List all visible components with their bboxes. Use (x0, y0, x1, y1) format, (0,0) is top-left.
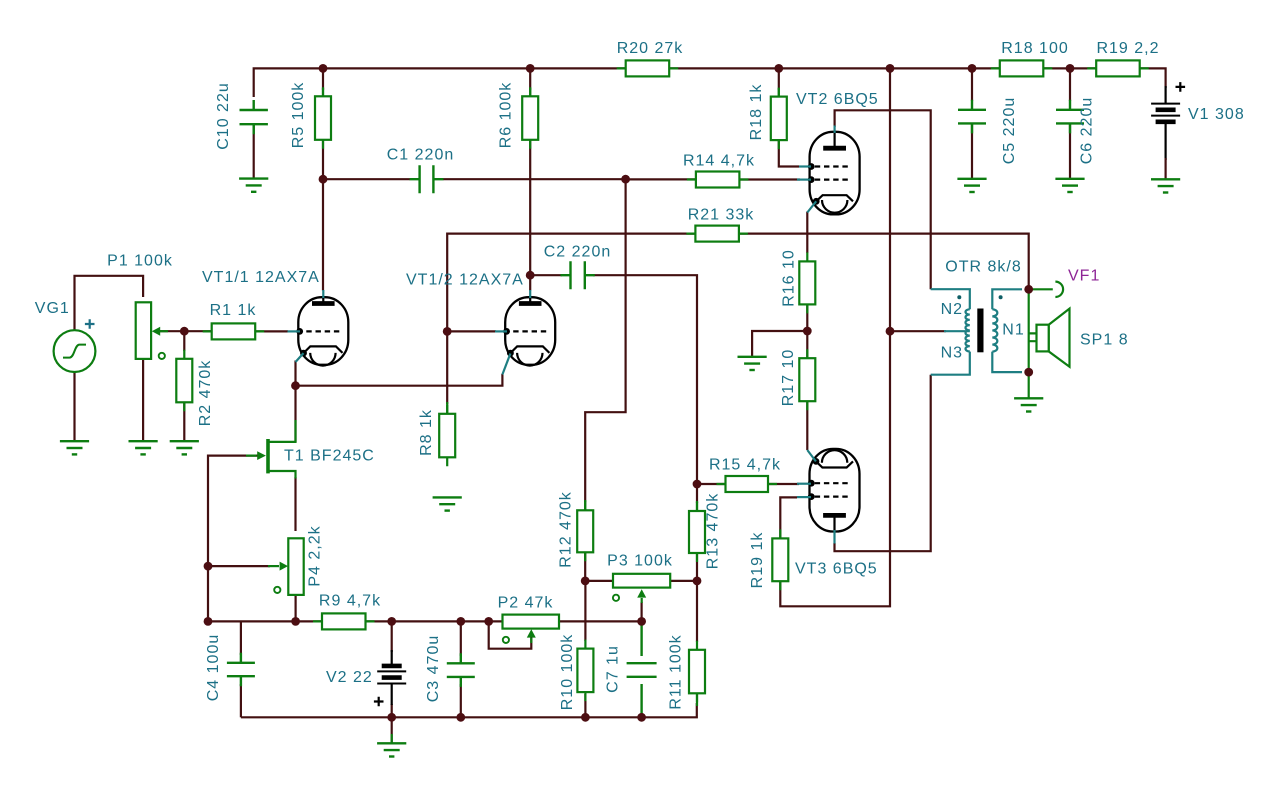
tube VT1/1 (288, 290, 349, 366)
wire VT2 plate to N2 (835, 110, 931, 289)
svg-text:VT2 6BQ5: VT2 6BQ5 (796, 91, 879, 108)
svg-text:R10 100k: R10 100k (559, 634, 576, 711)
junction R10 bottom (581, 713, 590, 722)
svg-text:C2 220n: C2 220n (544, 244, 612, 261)
wire VT1/2 plate lead (529, 275, 531, 290)
wire B+ column to R19 (780, 68, 890, 606)
wire node B down to R12 (585, 179, 625, 502)
junction output node (1024, 285, 1033, 294)
transformer OTR primary winding N2/N3 (965, 309, 969, 351)
capacitor C7 (627, 663, 657, 677)
wire C4 top lead (240, 621, 242, 655)
wire cathode bus (296, 374, 503, 386)
signal generator VG1 (54, 330, 96, 372)
svg-text:R21 33k: R21 33k (688, 207, 755, 224)
resistor R11 (689, 641, 705, 703)
capacitor C10 (240, 100, 268, 134)
wire VT1/2 grid branch (447, 330, 496, 332)
junction V2 top (387, 617, 396, 626)
potentiometer P1 (136, 302, 151, 359)
junction rail R5 (319, 64, 328, 73)
wire node C to R2 (183, 331, 185, 351)
ground under R8 (433, 497, 462, 510)
resistor R17 (799, 349, 815, 410)
P3 wiper arrow (637, 589, 646, 603)
wire R15 to VT3 grid1 (768, 483, 799, 485)
wire B+ top rail (254, 68, 1166, 97)
ground under V2 (377, 743, 406, 756)
wire P1 bottom to ground (142, 359, 144, 441)
wire R6 bottom to VT1/2 plate node (529, 140, 531, 275)
wire node A to C1 (323, 178, 410, 180)
junction center tap (886, 327, 895, 336)
ground under speaker (1014, 398, 1043, 411)
wire C6 top lead (1069, 68, 1071, 101)
wire VG1 to ground (73, 372, 75, 441)
svg-text:V2 22: V2 22 (326, 669, 373, 686)
svg-text:R6 100k: R6 100k (498, 82, 515, 149)
wire bias bus right (559, 620, 642, 622)
junction C3 bottom (456, 713, 465, 722)
svg-text:R18 100: R18 100 (1001, 40, 1069, 57)
wire N1 bottom lead (992, 352, 1022, 373)
capacitor C3 (447, 653, 475, 687)
wire V2 ground tap (391, 717, 393, 743)
svg-text:C1 220n: C1 220n (387, 147, 455, 164)
wire R6 lead stub (529, 88, 531, 97)
junction node D (803, 327, 812, 336)
resistor R12 (577, 501, 593, 561)
wire node D ground branch (752, 331, 807, 357)
wire C3 top lead (460, 621, 462, 656)
wire R10 bottom lead (584, 694, 586, 717)
battery V2 (377, 666, 406, 684)
svg-text:OTR 8k/8: OTR 8k/8 (945, 259, 1021, 276)
resistor R6 (522, 87, 538, 149)
junction P4 bottom (291, 617, 300, 626)
junction C7 P3 wiper (637, 617, 646, 626)
wire T1 source to P4 (294, 477, 296, 531)
svg-text:R12 470k: R12 470k (557, 491, 574, 568)
wire P4 bottom lead (295, 595, 297, 621)
potentiometer P2 (503, 615, 560, 629)
wire R18 to VT2 grid2 (779, 139, 799, 167)
svg-text:R19 1k: R19 1k (749, 532, 766, 589)
resistor R19 (1k) (772, 529, 788, 590)
wire VT1/1 cathode drop (294, 361, 296, 386)
junction P2 return (484, 617, 493, 626)
wire R11 top lead (696, 581, 698, 642)
wire center tap branch (890, 330, 946, 332)
svg-text:R2 470k: R2 470k (197, 360, 214, 427)
svg-text:R1 1k: R1 1k (210, 302, 257, 319)
wire C5 top lead (971, 68, 973, 101)
svg-text:T1 BF245C: T1 BF245C (284, 448, 375, 465)
junction cathode bus (291, 381, 300, 390)
svg-text:R19 2,2: R19 2,2 (1096, 40, 1159, 57)
wire VG1 to P1 top (75, 276, 144, 331)
svg-text:C10 22u: C10 22u (215, 82, 232, 150)
capacitor C4 (227, 653, 255, 686)
wire C7 bottom lead (640, 684, 642, 717)
wire P3 bus right (670, 580, 697, 582)
wire R17 to VT3 cathode (806, 402, 808, 451)
wire output node to speaker (1028, 289, 1030, 372)
svg-text:N3: N3 (941, 345, 963, 362)
ground R16 R17 tap (738, 357, 767, 370)
wire R18 top lead (778, 68, 780, 90)
wire N1 top lead (992, 289, 1022, 309)
transformer OTR secondary winding N1 (992, 309, 997, 351)
svg-text:R18 1k: R18 1k (748, 84, 765, 141)
wire C4 bottom lead (240, 684, 242, 717)
wire C5 bottom lead (971, 123, 973, 178)
svg-text:VF1: VF1 (1068, 268, 1100, 285)
junction rail C5 (968, 64, 977, 73)
svg-text:P2 47k: P2 47k (498, 595, 554, 612)
wire C2 to R13 column (593, 275, 697, 503)
resistor R5 (315, 87, 331, 149)
P2 wiper arrow (527, 629, 536, 643)
svg-text:C7 1u: C7 1u (605, 645, 622, 693)
svg-text:R5 100k: R5 100k (290, 82, 307, 149)
wire node C to R1 (184, 330, 213, 332)
wire R13 bottom to P3 bus (696, 552, 698, 581)
junction VT1/2 grid node (443, 327, 452, 336)
wire R16 to node D (806, 305, 808, 332)
svg-text:V1 308: V1 308 (1188, 106, 1245, 123)
junction R15 tap (693, 480, 702, 489)
plus sign VG1 (85, 319, 95, 329)
resistor R10 (577, 640, 593, 702)
connector VF1 (1055, 282, 1063, 297)
wire R14 to VT2 grid1 (739, 178, 800, 180)
wire R11 bottom lead stub (696, 692, 698, 707)
wire N2 top lead (931, 289, 970, 309)
tube VT1/2 (495, 290, 555, 375)
tube VT3 (797, 449, 860, 544)
P1 wiper arrow (152, 327, 168, 336)
wire R15 left lead (697, 483, 727, 485)
resistor R19b (R19 2,2) (1087, 60, 1149, 76)
svg-text:R9 4,7k: R9 4,7k (319, 593, 381, 610)
wire C3 bottom lead (460, 684, 462, 717)
wire P3 wiper stem (640, 602, 642, 621)
junction rail R6 (526, 64, 535, 73)
svg-text:R8 1k: R8 1k (418, 409, 435, 456)
junction C7 bottom (637, 713, 646, 722)
junction rail R18 (774, 64, 783, 73)
resistor R18b (R18 100) (991, 60, 1053, 76)
wire VT3 plate to N3 (835, 375, 931, 552)
wire R8 top lead stub (446, 402, 448, 415)
svg-text:C4 100u: C4 100u (205, 634, 222, 702)
junction rail C6 (1066, 64, 1075, 73)
wire R5 top lead (322, 68, 324, 90)
svg-text:P1 100k: P1 100k (107, 253, 173, 270)
potentiometer P4 (288, 538, 303, 595)
wire R12 top lead stub (584, 500, 586, 511)
svg-text:VT3 6BQ5: VT3 6BQ5 (795, 561, 878, 578)
wire C1 to node B (443, 178, 626, 180)
potentiometer P3 (613, 574, 670, 588)
wire P1 wiper to node C (157, 330, 184, 332)
wire bias bus left (208, 620, 322, 622)
wire R21 feedback line (447, 234, 1028, 404)
ground under C6 (1055, 179, 1084, 192)
wire V2 bottom lead (391, 704, 393, 717)
wire V2 plates top lead (391, 650, 393, 666)
capacitor C2 (561, 261, 595, 289)
ground under C5 (957, 179, 986, 192)
junction gate bus corner (204, 617, 213, 626)
svg-text:R20 27k: R20 27k (617, 40, 684, 57)
resistor R9 (313, 613, 375, 629)
resistor R16 (799, 252, 815, 313)
svg-text:C5 220u: C5 220u (1001, 97, 1018, 165)
wire V2 ground stub (391, 734, 393, 743)
wire P2 wiper return (489, 621, 532, 648)
ground under R2 (170, 441, 199, 454)
transistor T1 (246, 420, 296, 479)
junction V2 bottom (387, 713, 396, 722)
svg-text:R17 10: R17 10 (780, 349, 797, 407)
wire output node to VF1 (1030, 288, 1053, 290)
junction node C (180, 327, 189, 336)
junction speaker bottom (1024, 368, 1033, 377)
svg-text:R15 4,7k: R15 4,7k (709, 457, 781, 474)
junction VT1/2 plate node (526, 271, 535, 280)
svg-text:C6 220u: C6 220u (1079, 97, 1096, 165)
wire V1 to ground (1164, 158, 1166, 179)
svg-text:SP1 8: SP1 8 (1080, 332, 1129, 349)
svg-text:C3 470u: C3 470u (425, 635, 442, 703)
wire C7 top lead (640, 621, 642, 656)
speaker SP1 (1029, 309, 1070, 367)
wire R5 bottom to node A (322, 140, 324, 179)
P4 wiper arrow (268, 562, 288, 571)
svg-text:N2: N2 (941, 301, 963, 318)
wire R2 to ground (183, 403, 185, 441)
resistor R13 (689, 502, 705, 562)
battery V1 (1151, 104, 1180, 122)
svg-text:P4 2,2k: P4 2,2k (307, 525, 324, 586)
wire V2 top lead (391, 621, 393, 652)
P4 rotation mark (274, 587, 280, 593)
wire R12 bottom to P3 bus (584, 552, 586, 581)
wire node B to R14 (626, 178, 697, 180)
wire R1 to VT1/1 grid (255, 330, 288, 332)
plus sign V1 (1176, 82, 1186, 92)
junction gate P4 wiper (204, 562, 213, 571)
ground under V1 (1151, 179, 1180, 192)
wire V2 plates bottom lead (391, 684, 393, 706)
wire V1 bottom lead (1164, 122, 1166, 160)
wire R19 to VT3 grid2 (780, 497, 797, 538)
resistor R8 (439, 405, 455, 467)
plus sign V2 (374, 697, 384, 707)
svg-text:N1: N1 (1002, 322, 1024, 339)
junction P3 bus left (581, 577, 590, 586)
wire speaker to ground (1028, 372, 1030, 398)
ground under VG1 (60, 441, 89, 454)
wire C10 to ground (253, 123, 255, 179)
resistor R1 (203, 323, 265, 339)
ground under P1 (129, 441, 158, 454)
wire R10 top lead (584, 581, 586, 641)
wire R13 top lead stub (696, 501, 698, 512)
wire center tap lead (944, 330, 970, 332)
junction C3 top (456, 617, 465, 626)
resistor R21 (686, 226, 748, 242)
svg-text:R13 470k: R13 470k (705, 493, 722, 570)
svg-text:R11 100k: R11 100k (667, 634, 684, 709)
svg-text:VT1/2 12AX7A: VT1/2 12AX7A (406, 272, 524, 289)
wire P4 wiper branch (208, 565, 270, 567)
tube VT2 (797, 126, 860, 215)
phase dot N1 (999, 295, 1003, 299)
resistor R18 (1k) (771, 88, 787, 150)
resistor R15 (717, 476, 778, 492)
P2 rotation mark (503, 637, 509, 643)
svg-text:R16 10: R16 10 (781, 249, 798, 307)
svg-text:R14 4,7k: R14 4,7k (683, 153, 755, 170)
svg-text:VT1/1 12AX7A: VT1/1 12AX7A (202, 269, 320, 286)
phase dot N2 (957, 295, 961, 299)
svg-text:P3 100k: P3 100k (607, 553, 673, 570)
wire bottom bus (241, 703, 697, 717)
wire N3 bottom lead (931, 352, 970, 375)
svg-text:VG1: VG1 (35, 300, 70, 317)
wire R5 lead stub (322, 88, 324, 97)
wire R6 top lead (529, 68, 531, 90)
wire VT1/1 plate lead (322, 179, 324, 290)
resistor R14 (687, 172, 749, 188)
wire VT1/2 plate node to C2 (530, 274, 562, 276)
wire T1 gate column (208, 456, 260, 622)
junction node B (621, 175, 630, 184)
wire C6 bottom lead (1069, 123, 1071, 178)
P1 rotation mark (159, 353, 165, 359)
wire T1 drain column (294, 386, 296, 442)
transformer OTR core (977, 309, 983, 353)
wire R18 lead stub (778, 88, 780, 97)
resistor R2 (176, 350, 192, 412)
wire bias bus mid (366, 620, 503, 622)
wire VT2 cathode to R16 (806, 212, 808, 254)
junction node A (319, 175, 328, 184)
wire P3 bus left (585, 580, 614, 582)
capacitor C1 (410, 165, 444, 193)
P3 rotation mark (613, 595, 619, 601)
capacitor C5 (958, 100, 986, 134)
junction P3 bus right (693, 577, 702, 586)
wire V1 top lead (1164, 86, 1166, 104)
wire node D to R17 (806, 331, 808, 358)
ground under C10 (239, 179, 268, 192)
resistor R20 (617, 60, 679, 76)
capacitor C6 (1056, 100, 1084, 134)
junction rail B+ column (886, 64, 895, 73)
